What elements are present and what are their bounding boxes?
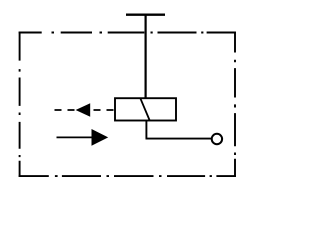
power terminal bar (T-bar) at top bbox=[126, 13, 165, 15]
diagonal actuator line inside box bbox=[140, 98, 149, 120]
dashed control line into left side of box bbox=[55, 109, 115, 111]
enclosure boundary (dash-dot box), right side bbox=[234, 32, 236, 177]
arrowhead (solid flow arrow, pointing right) bbox=[92, 129, 109, 146]
wire: vertical stem from terminal bar down to component box bbox=[145, 15, 147, 99]
enclosure boundary (dash-dot box), top side bbox=[19, 32, 236, 34]
solid flow arrow shaft bbox=[57, 136, 94, 138]
wire: stem from box bottom down bbox=[145, 121, 147, 139]
output terminal (open circle) bbox=[212, 134, 222, 144]
enclosure boundary (dash-dot box), left side bbox=[19, 32, 21, 177]
enclosure boundary (dash-dot box), bottom side bbox=[19, 175, 236, 177]
wire: horizontal run to output terminal bbox=[146, 138, 212, 140]
component box (relay/actuator rectangle) bbox=[115, 98, 176, 120]
arrowhead (dashed control arrow, pointing left) bbox=[76, 103, 91, 117]
